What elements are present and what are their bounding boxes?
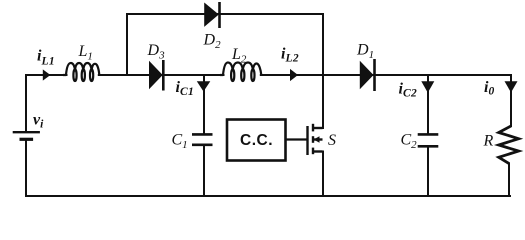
wire: gate lead from C.C. box [286, 138, 308, 140]
diode D3 [150, 60, 164, 91]
svg-text:iC1: iC1 [176, 79, 195, 98]
resistor R zigzag [499, 126, 519, 164]
capacitor C1 [192, 134, 213, 144]
inductor L1 [63, 63, 99, 81]
wire: main rail segment right of L2 [261, 74, 511, 76]
svg-text:L1: L1 [78, 43, 93, 63]
inductor L2 [220, 63, 261, 81]
wire: bottom rail [26, 195, 510, 197]
wire: C1 branch lower [203, 145, 205, 196]
svg-text:i0: i0 [484, 79, 495, 98]
svg-text:S: S [328, 132, 336, 149]
svg-text:iC2: iC2 [399, 81, 418, 100]
wire: main rail segment L1 to L2 [99, 74, 224, 76]
svg-text:R: R [483, 133, 494, 150]
svg-text:C.C.: C.C. [240, 132, 273, 149]
control circuit box C.C. [227, 120, 286, 161]
svg-text:C1: C1 [172, 132, 188, 152]
diode D1 [360, 59, 374, 91]
transistor S (MOSFET) [308, 124, 323, 155]
svg-text:L2: L2 [231, 46, 247, 66]
wire: C2 branch lower [427, 146, 429, 196]
battery source vi long plate [13, 131, 40, 133]
wire: top-loop left vertical [126, 14, 128, 75]
current arrow i_C1 [197, 81, 211, 91]
wire: top bypass rail (D2 branch) [127, 13, 323, 15]
MOSFET body arrow [314, 136, 320, 143]
current arrow i_C2 [421, 81, 434, 93]
wire: left rail upper (source to main rail) [25, 75, 27, 132]
svg-text:vi: vi [33, 112, 44, 131]
svg-text:iL2: iL2 [281, 46, 299, 65]
svg-text:C2: C2 [401, 132, 418, 152]
diode D2 [205, 2, 220, 28]
svg-text:D3: D3 [147, 42, 166, 62]
wire: top-loop right vertical / MOSFET drain [322, 14, 324, 128]
svg-text:D1: D1 [356, 42, 374, 62]
wire: C1 branch upper [203, 75, 205, 134]
wire: MOSFET source vertical [322, 152, 324, 197]
current arrow i_L1 [43, 69, 51, 80]
wire: left rail lower (source to bottom rail) [25, 140, 27, 197]
wire: right rail upper [510, 75, 512, 126]
svg-text:iL1: iL1 [37, 48, 55, 68]
capacitor C2 [418, 134, 439, 146]
wire: right rail lower [508, 164, 510, 197]
battery source vi short plate [20, 138, 34, 141]
current arrow i_0 [505, 81, 518, 92]
current arrow i_L2 [290, 69, 298, 81]
wire: main rail segment left of L1 [26, 74, 67, 76]
svg-text:D2: D2 [203, 32, 222, 52]
wire: C2 branch upper [427, 75, 429, 134]
